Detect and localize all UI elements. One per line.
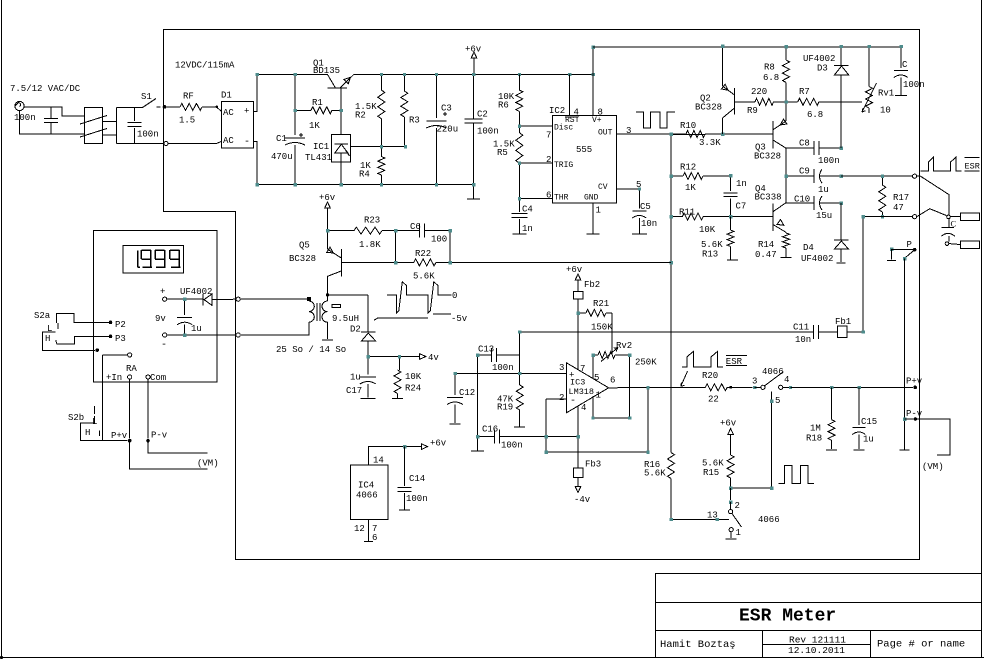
- svg-text:6: 6: [610, 376, 615, 386]
- svg-text:220: 220: [751, 87, 767, 97]
- svg-text:Rv2: Rv2: [616, 341, 632, 351]
- wire pin13: [671, 518, 729, 520]
- VM bracket right: [917, 419, 950, 455]
- feedback horizontal: [546, 451, 648, 453]
- esr waveform annotation top right: [921, 157, 962, 171]
- svg-text:S2b: S2b: [68, 413, 84, 423]
- svg-text:Disc: Disc: [554, 124, 573, 133]
- resistor R1 1K: [295, 109, 311, 111]
- wire battery - rail: [167, 334, 236, 336]
- svg-text:P3: P3: [115, 334, 126, 344]
- resistor R16 5.6K: [668, 453, 675, 479]
- svg-text:220u: 220u: [437, 125, 459, 135]
- Q5 base wire: [341, 262, 395, 264]
- svg-text:-: -: [244, 137, 250, 148]
- wire P node: [892, 248, 913, 250]
- svg-text:TL431: TL431: [305, 153, 332, 163]
- svg-text:P-v: P-v: [151, 431, 168, 441]
- filter loop left vertical: [116, 108, 118, 144]
- wire OUT pin3: [616, 133, 671, 135]
- resistor R24 10K: [398, 357, 400, 371]
- svg-text:-5v: -5v: [451, 314, 468, 324]
- resistor R3: [403, 74, 405, 91]
- switch P diagonal: [904, 251, 913, 258]
- svg-text:10n: 10n: [641, 219, 657, 229]
- capacitor C16 100n: [478, 436, 495, 438]
- svg-text:IC2: IC2: [549, 106, 565, 116]
- svg-text:9.5uH: 9.5uH: [332, 314, 359, 324]
- arrow 4v: [399, 356, 419, 358]
- svg-text:R9: R9: [747, 106, 758, 116]
- bridge rectifier D1 box: [221, 101, 253, 147]
- wire Com to P-v: [147, 379, 149, 439]
- svg-text:S2a: S2a: [34, 311, 51, 321]
- resistor R22 5.6K: [396, 261, 414, 263]
- svg-text:BC328: BC328: [695, 103, 722, 113]
- svg-text:OUT: OUT: [598, 129, 613, 138]
- capacitor C14 100n: [403, 445, 406, 448]
- svg-text:D4: D4: [803, 243, 814, 253]
- wire S1 to RF: [165, 106, 181, 108]
- resistor R11 10K: [671, 216, 682, 218]
- svg-text:+6v: +6v: [566, 265, 583, 275]
- svg-text:ESR: ESR: [965, 162, 980, 172]
- svg-text:R17: R17: [893, 193, 909, 203]
- svg-text:R18: R18: [806, 434, 822, 444]
- svg-text:250K: 250K: [635, 358, 657, 368]
- svg-text:D1: D1: [221, 91, 232, 101]
- svg-text:Rv1: Rv1: [878, 89, 894, 99]
- svg-text:C9: C9: [799, 167, 810, 177]
- wire RA terminal: [103, 354, 128, 356]
- svg-text:S1: S1: [141, 92, 152, 102]
- transistor Q5 BC328: [340, 249, 342, 276]
- svg-text:5.6K: 5.6K: [702, 459, 724, 469]
- svg-text:P2: P2: [115, 320, 126, 330]
- wire pin5 control vertical: [771, 392, 773, 489]
- resistor R9 220: [735, 101, 756, 103]
- diode D4 UF4002: [840, 203, 842, 240]
- svg-text:LM318: LM318: [569, 387, 595, 397]
- page left border: [1, 0, 3, 658]
- potentiometer Rv2 250K: [593, 354, 598, 356]
- svg-text:R4: R4: [359, 170, 370, 180]
- plus mark C1: [299, 133, 303, 137]
- TL431 symbol: [335, 143, 349, 145]
- svg-text:R11: R11: [679, 208, 695, 218]
- filter loop bottom wire: [117, 143, 167, 145]
- diode D3 UF4002: [840, 47, 842, 65]
- title block row divider lower: [656, 630, 982, 632]
- svg-text:100n: 100n: [818, 156, 840, 166]
- capacitor C 100n top right: [900, 47, 902, 68]
- svg-text:13: 13: [707, 511, 718, 521]
- wire C13 node vertical: [519, 332, 521, 374]
- power jack J1: [15, 101, 24, 110]
- wire TL431 ref: [350, 146, 405, 148]
- svg-text:6.8: 6.8: [807, 110, 823, 120]
- node P stub ground: [890, 247, 893, 250]
- svg-text:150K: 150K: [591, 323, 613, 333]
- svg-text:Fb2: Fb2: [584, 280, 600, 290]
- svg-text:7.5/12 VAC/DC: 7.5/12 VAC/DC: [10, 84, 81, 94]
- pin8 V+ wire: [592, 47, 594, 115]
- diode D2: [367, 295, 369, 332]
- svg-text:100n: 100n: [477, 127, 499, 137]
- switch 4066 pins 3-4: [753, 386, 756, 389]
- svg-text:1n: 1n: [736, 179, 747, 189]
- svg-text:6: 6: [546, 191, 551, 201]
- open circle Com: [146, 375, 150, 379]
- svg-text:Fb1: Fb1: [835, 317, 851, 327]
- svg-text:L: L: [47, 324, 52, 334]
- svg-text:7: 7: [546, 131, 551, 141]
- svg-text:R23: R23: [364, 216, 380, 226]
- svg-text:4: 4: [784, 375, 789, 385]
- wire R5 bottom to THR: [518, 163, 520, 198]
- collector bus Q3/Q4: [785, 148, 787, 202]
- wire pin7 supply: [577, 313, 579, 370]
- capacitor C13 100n: [478, 354, 492, 356]
- svg-text:IC4: IC4: [358, 481, 374, 491]
- svg-text:C17: C17: [346, 386, 362, 396]
- svg-text:UF4002: UF4002: [801, 254, 833, 264]
- resistor R13 5.6K: [730, 217, 732, 230]
- svg-text:R14: R14: [758, 240, 774, 250]
- svg-text:BC328: BC328: [289, 254, 316, 264]
- svg-text:0: 0: [452, 291, 457, 301]
- node dot P+v: [913, 386, 917, 390]
- svg-text:R6: R6: [498, 101, 509, 111]
- svg-text:P-v: P-v: [906, 409, 923, 419]
- inner schematic boundary box: [164, 30, 920, 560]
- svg-text:THR: THR: [554, 194, 569, 203]
- capacitor C8 100n: [786, 147, 814, 149]
- svg-text:(VM): (VM): [922, 462, 944, 472]
- svg-text:C12: C12: [459, 388, 475, 398]
- svg-text:(VM): (VM): [197, 459, 219, 469]
- svg-text:R22: R22: [415, 249, 431, 259]
- svg-text:470u: 470u: [271, 152, 293, 162]
- svg-text:5.6K: 5.6K: [644, 469, 666, 479]
- svg-text:4: 4: [581, 403, 586, 413]
- resistor R7 6.8: [786, 101, 798, 103]
- switch S1: [143, 99, 157, 108]
- svg-text:100n: 100n: [137, 130, 159, 140]
- wire choke1 to loop upper: [103, 121, 117, 123]
- svg-text:C1: C1: [276, 134, 287, 144]
- wire P+v down vertical: [903, 386, 905, 388]
- svg-text:+: +: [244, 107, 249, 117]
- svg-text:R8: R8: [764, 63, 775, 73]
- svg-text:100n: 100n: [501, 441, 523, 451]
- transistor Q3 BC328: [772, 121, 774, 148]
- svg-text:CV: CV: [598, 183, 608, 192]
- power +6v arrow top rail: [473, 58, 475, 74]
- op-amp IC3 LM318 triangle: [566, 363, 608, 413]
- svg-text:47: 47: [893, 203, 904, 213]
- capacitor C2 100n: [473, 74, 475, 118]
- svg-text:Fb3: Fb3: [585, 460, 601, 470]
- ferrite bead Fb2: [573, 291, 583, 299]
- capacitor C11 10n: [813, 325, 815, 339]
- choke slash 2: [80, 129, 107, 138]
- wire pin3 input: [455, 372, 566, 374]
- svg-text:R7: R7: [799, 87, 810, 97]
- wire lower AC to D1: [168, 141, 221, 143]
- esr waveform annotation R20: [682, 351, 723, 367]
- IC4 4066 box: [350, 465, 387, 519]
- title block column divider 2: [870, 631, 872, 658]
- svg-text:4v: 4v: [428, 353, 439, 363]
- svg-text:3.3K: 3.3K: [699, 138, 721, 148]
- svg-text:R20: R20: [702, 371, 718, 381]
- wire to probe pad 2: [949, 243, 961, 246]
- wire sense line y217: [863, 216, 913, 218]
- svg-text:UF4002: UF4002: [180, 287, 212, 297]
- svg-text:12VDC/115mA: 12VDC/115mA: [175, 61, 235, 71]
- resistor R15 5.6K: [727, 455, 734, 478]
- svg-text:5.6K: 5.6K: [413, 272, 435, 282]
- wire V+ top distribution: [593, 46, 901, 48]
- svg-text:1u: 1u: [191, 324, 202, 334]
- capacitor C12: [454, 373, 456, 395]
- svg-text:C11: C11: [793, 323, 809, 333]
- wire D1 plus to top rail: [253, 74, 257, 111]
- wire R23 node: [328, 230, 355, 232]
- svg-text:RF: RF: [183, 92, 194, 102]
- svg-text:-: -: [161, 340, 167, 351]
- svg-text:1.8K: 1.8K: [359, 240, 381, 250]
- open circle feedthrough bottom: [236, 333, 240, 337]
- transistor Q2 BC328: [734, 88, 736, 115]
- title block frame: [656, 574, 982, 658]
- ferrite bead Fb3: [573, 468, 583, 478]
- node P-v: [903, 418, 906, 421]
- svg-text:R2: R2: [355, 111, 366, 121]
- open circle lower AC feedthrough: [164, 141, 168, 145]
- svg-text:3: 3: [626, 126, 631, 136]
- capacitor 100n filter (second): [134, 108, 136, 122]
- svg-text:3: 3: [559, 363, 564, 373]
- resistor R18 1M: [830, 386, 833, 389]
- wire Disc pin7: [519, 125, 552, 127]
- wire ESR sense to C13 node: [520, 331, 813, 333]
- svg-text:25 So / 14 So: 25 So / 14 So: [276, 345, 346, 355]
- svg-text:IC1: IC1: [313, 142, 329, 152]
- open circle ESR out: [913, 174, 917, 178]
- svg-text:15u: 15u: [816, 211, 832, 221]
- open circle battery +: [163, 297, 167, 301]
- capacitor 100n input (first): [50, 107, 52, 119]
- svg-text:6.8: 6.8: [763, 73, 779, 83]
- resistor R10 3.3K: [671, 133, 686, 135]
- svg-text:4066: 4066: [762, 367, 784, 377]
- svg-text:R24: R24: [405, 384, 421, 394]
- diode UF4002 battery: [202, 294, 204, 305]
- svg-text:IC3: IC3: [570, 378, 585, 388]
- resistor R8 6.8: [785, 46, 787, 60]
- svg-text:C3: C3: [441, 104, 452, 114]
- svg-text:D2: D2: [350, 325, 361, 335]
- DUT capacitor under test: [948, 219, 950, 228]
- transformer T1 primary: [327, 295, 329, 301]
- vertical R23-R22 left: [395, 231, 397, 263]
- svg-text:1.5: 1.5: [179, 116, 195, 126]
- resistor R21 150K: [578, 312, 586, 314]
- svg-text:100n: 100n: [406, 494, 428, 504]
- svg-text:6: 6: [372, 533, 377, 543]
- svg-text:P+v: P+v: [906, 377, 923, 387]
- resistor R14 0.47: [785, 231, 787, 234]
- svg-text:22: 22: [708, 395, 719, 405]
- wire to probe pad 1: [950, 216, 960, 218]
- svg-text:555: 555: [576, 145, 592, 155]
- svg-text:2: 2: [546, 155, 551, 165]
- wire P vertical: [903, 259, 905, 450]
- transistor Q4 BC338: [772, 203, 774, 231]
- svg-text:C8: C8: [799, 139, 810, 149]
- svg-text:C: C: [902, 60, 908, 70]
- svg-text:+6v: +6v: [720, 419, 737, 429]
- svg-text:100n: 100n: [14, 113, 36, 123]
- svg-text:1M: 1M: [810, 424, 821, 434]
- junctions top right: [840, 45, 843, 48]
- label ESR overline R20: [726, 354, 747, 356]
- wire output pin6: [609, 386, 706, 389]
- svg-text:BC338: BC338: [755, 193, 782, 203]
- svg-text:+6v: +6v: [465, 45, 482, 55]
- ESR output wire: [841, 175, 913, 177]
- svg-text:2: 2: [559, 393, 564, 403]
- svg-text:C: C: [951, 219, 957, 229]
- switch 4066 pins 2-1: [730, 488, 732, 500]
- svg-text:+: +: [160, 287, 165, 297]
- svg-text:C16: C16: [482, 425, 498, 435]
- wire D1 minus to ground rail: [253, 141, 257, 184]
- wire C13 left ground vertical: [477, 355, 479, 451]
- svg-text:1: 1: [596, 206, 601, 216]
- pins 12 7 6 wire: [367, 519, 369, 541]
- wire OUT vertical bus: [670, 135, 672, 453]
- wire to +6v arrow: [405, 446, 422, 448]
- title block column divider 1: [762, 631, 764, 658]
- junction dots supply rails: [256, 73, 259, 76]
- svg-text:100: 100: [431, 235, 447, 245]
- svg-text:5.6K: 5.6K: [701, 240, 723, 250]
- resistor R12 1K: [671, 175, 683, 177]
- svg-text:Rev 121111: Rev 121111: [789, 635, 846, 646]
- IC2 555 box: [553, 115, 617, 203]
- svg-text:10K: 10K: [699, 225, 716, 235]
- inductor rect symbol: [332, 304, 340, 307]
- wire switch to P+v: [790, 386, 913, 388]
- svg-text:R10: R10: [680, 121, 696, 131]
- svg-text:1: 1: [736, 528, 741, 538]
- svg-text:C4: C4: [522, 205, 533, 215]
- waveform symbol 555 OUT: [636, 112, 675, 128]
- capacitor C17 1u: [367, 357, 369, 375]
- vertical C6-R22 right: [449, 231, 451, 263]
- capacitor C6 100: [396, 230, 419, 232]
- junctions 555 area: [518, 124, 521, 127]
- pin4 RST wire: [569, 74, 571, 115]
- transformer core: [316, 303, 318, 321]
- svg-text:1K: 1K: [685, 183, 696, 193]
- page right border: [981, 0, 983, 658]
- resistor R4 1K: [380, 147, 382, 157]
- svg-text:-4v: -4v: [574, 495, 591, 505]
- svg-text:ESR Meter: ESR Meter: [739, 607, 836, 627]
- svg-text:14: 14: [373, 456, 384, 466]
- svg-text:1u: 1u: [863, 435, 874, 445]
- node dot P+v meter: [128, 439, 132, 443]
- svg-text:5: 5: [775, 396, 780, 406]
- svg-text:+6v: +6v: [430, 439, 447, 449]
- svg-text:C2: C2: [477, 110, 488, 120]
- svg-text:1n: 1n: [522, 224, 533, 234]
- svg-text:1K: 1K: [309, 121, 320, 131]
- open circle sense: [913, 215, 917, 219]
- svg-text:3: 3: [752, 377, 757, 387]
- svg-text:1u: 1u: [818, 185, 829, 195]
- resistor RF: [180, 103, 202, 110]
- svg-text:UF4002: UF4002: [803, 54, 835, 64]
- junctions driver: [785, 45, 788, 48]
- wire D2 node: [368, 356, 399, 358]
- wire probe sense bend: [917, 209, 947, 217]
- svg-text:R13: R13: [702, 250, 718, 260]
- svg-text:-: -: [570, 396, 576, 407]
- resistor R2 1.5K: [380, 74, 382, 90]
- wire R10 to Q2 base net: [671, 134, 705, 136]
- svg-text:BC328: BC328: [754, 152, 781, 162]
- pin5 CV wire: [616, 188, 639, 190]
- wire IC1 bottom to ground rail: [340, 162, 342, 184]
- wire jack tip to C input cap: [24, 107, 84, 116]
- wire TRIG pin2: [519, 162, 552, 164]
- pin1 GND wire: [592, 203, 594, 234]
- wire +In to P+v: [129, 379, 131, 439]
- page bottom border: [0, 657, 984, 659]
- probe pad 2: [960, 241, 979, 249]
- svg-text:C7: C7: [736, 202, 747, 212]
- junctions op-amp: [577, 311, 580, 314]
- svg-text:C13: C13: [478, 345, 494, 355]
- wire choke1 to loop lower: [103, 134, 117, 136]
- wire Rv2 to pin5: [592, 355, 594, 378]
- svg-text:C10: C10: [794, 195, 810, 205]
- svg-text:H: H: [85, 428, 90, 438]
- svg-text:1: 1: [596, 391, 601, 401]
- svg-text:C14: C14: [409, 474, 425, 484]
- svg-text:100n: 100n: [903, 80, 925, 90]
- capacitor C10 15u: [786, 202, 814, 204]
- svg-text:R21: R21: [593, 299, 609, 309]
- node dot P: [913, 248, 917, 252]
- wire pin4 Fb3 chain: [577, 406, 579, 436]
- svg-text:R15: R15: [703, 468, 719, 478]
- ferrite bead Fb1: [837, 326, 847, 337]
- svg-text:Hamit Boztaş: Hamit Boztaş: [660, 639, 736, 651]
- svg-text:RA: RA: [126, 364, 137, 374]
- title block rev cell divider: [763, 644, 871, 646]
- svg-text:H: H: [45, 334, 50, 344]
- open circle probe 2: [945, 242, 949, 246]
- svg-text:P+v: P+v: [111, 431, 128, 441]
- transformer T1 secondary: [307, 297, 311, 301]
- svg-text:4066: 4066: [758, 515, 780, 525]
